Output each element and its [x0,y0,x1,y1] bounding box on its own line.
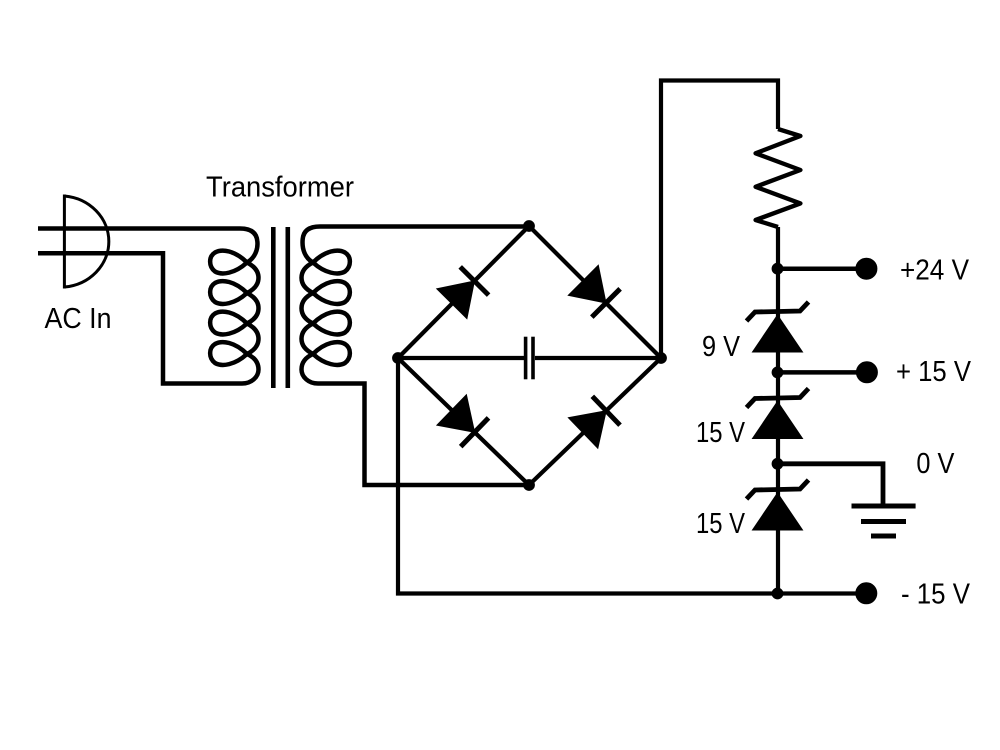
junction node +24 V [772,263,783,274]
capacitor C1 [526,337,533,380]
terminal +15 V [856,362,877,383]
junction node A (bridge top) [524,221,535,232]
wire: capacitor C1 right plate to bridge positive node [535,356,661,360]
wire: AC top prong to transformer primary, primary winding L1, return to bottom prong [38,229,259,384]
zener diode Z2 (15 V) [747,389,809,439]
junction node B (bridge left) [393,353,404,364]
wire: bridge negative node to capacitor C1 left plate [398,356,524,360]
svg-text:Transformer: Transformer [206,172,354,204]
diode D4 [568,396,620,448]
zener diode Z1 (9 V) [747,302,809,352]
wire: bridge edge bottom-right [529,358,661,485]
AC plug connector [64,195,108,289]
wire: bridge edge left-bottom [398,358,529,485]
svg-text:9 V: 9 V [702,331,741,363]
ground [852,506,916,536]
wire: bridge negative node down to -15 V bus [398,358,856,594]
terminal -15 V [856,583,877,604]
junction node C (bridge right) [656,353,667,364]
wire: +24 V stub [778,266,858,271]
wire: +15 V stub [778,370,858,375]
svg-text:15 V: 15 V [696,508,746,540]
svg-text:+ 15 V: + 15 V [896,356,972,388]
wire: bridge edge top-right [529,226,661,358]
junction node D (bridge bottom) [524,480,535,491]
diode D3 [437,395,489,447]
junction node 0 V [772,458,783,469]
svg-text:AC In: AC In [45,303,112,335]
wire: transformer secondary winding L2 to bridge (top to node A, bottom to node D) [302,227,530,486]
svg-text:0 V: 0 V [916,448,955,480]
zener diode Z3 (15 V) [747,480,809,530]
diode D1 [437,267,489,319]
wire: regulator rail through zener stack [776,227,780,594]
svg-text:15 V: 15 V [696,417,746,449]
wire: 0 V stub to ground [778,464,883,505]
wire: bridge edge left-top [398,226,529,358]
junction node -15 V [772,588,783,599]
svg-text:+24 V: +24 V [900,255,970,287]
wire: bridge positive node up and over to resistor R1 [661,81,778,359]
junction node +15 V [772,367,783,378]
svg-text:- 15 V: - 15 V [901,579,971,611]
diode D2 [568,265,620,317]
resistor R1 [756,129,801,227]
terminal +24 V [856,258,877,279]
transformer core [273,227,288,388]
